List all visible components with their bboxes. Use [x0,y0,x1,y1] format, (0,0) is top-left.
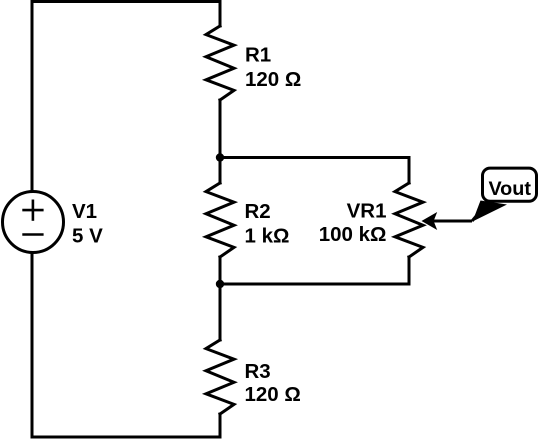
svg-text:R3: R3 [245,360,271,383]
svg-text:V1: V1 [72,200,97,223]
svg-text:120 Ω: 120 Ω [245,383,301,406]
svg-text:VR1: VR1 [347,200,387,223]
svg-text:5 V: 5 V [72,225,103,248]
svg-text:100 kΩ: 100 kΩ [319,223,387,246]
svg-text:R2: R2 [245,200,271,223]
svg-text:R1: R1 [245,44,271,67]
svg-text:Vout: Vout [488,178,531,200]
svg-text:1 kΩ: 1 kΩ [245,224,290,247]
svg-text:120 Ω: 120 Ω [245,68,301,91]
